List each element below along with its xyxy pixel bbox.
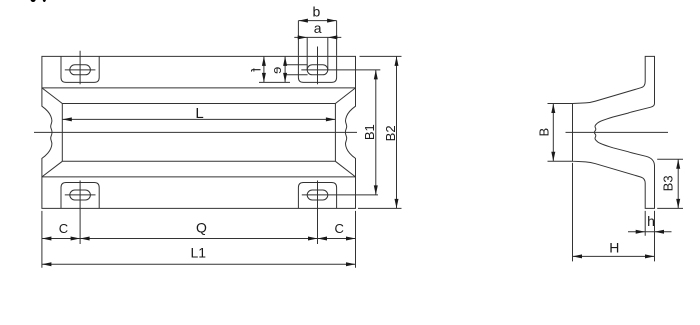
- svg-text:B2: B2: [383, 125, 398, 141]
- svg-text:b: b: [313, 4, 321, 20]
- svg-text:a: a: [314, 20, 322, 36]
- svg-text:B3: B3: [660, 175, 675, 191]
- svg-text:H: H: [609, 239, 619, 255]
- svg-text:h: h: [647, 213, 655, 229]
- svg-text:C: C: [59, 221, 68, 236]
- svg-text:Q: Q: [196, 220, 207, 236]
- svg-text:L1: L1: [191, 245, 207, 261]
- svg-text:B: B: [537, 128, 552, 137]
- svg-text:C: C: [335, 221, 344, 236]
- svg-text:L: L: [195, 105, 203, 122]
- svg-text:f: f: [249, 68, 264, 72]
- svg-text:B1: B1: [362, 124, 377, 140]
- svg-text:e: e: [269, 67, 284, 74]
